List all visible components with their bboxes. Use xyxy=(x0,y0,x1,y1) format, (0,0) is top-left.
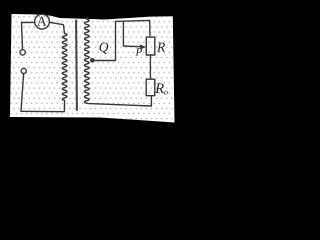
black scan border xyxy=(0,0,197,147)
svg-text:A: A xyxy=(37,14,47,29)
resistor R box xyxy=(146,37,155,55)
terminal upper xyxy=(20,50,25,55)
wire ammeter to primary top corner xyxy=(49,22,64,33)
secondary winding L2 xyxy=(84,17,89,103)
wire slider branch xyxy=(123,21,141,47)
wire node Q to right riser xyxy=(92,21,116,60)
terminal lower xyxy=(21,68,26,73)
svg-text:P: P xyxy=(135,47,143,59)
wire primary bottom xyxy=(21,101,65,112)
wire top-left horizontal to ammeter xyxy=(22,21,35,23)
wire top rail right loop xyxy=(116,20,151,37)
node Q junction dot xyxy=(90,58,95,63)
svg-text:Q: Q xyxy=(99,40,109,55)
wire left vertical lower xyxy=(21,74,24,112)
slider arrowhead P xyxy=(140,44,146,49)
ammeter A xyxy=(35,14,50,29)
paper background xyxy=(10,14,175,123)
primary winding L1 xyxy=(62,33,67,100)
transformer core xyxy=(75,21,78,111)
resistor R0 box xyxy=(146,79,155,96)
svg-text:R: R xyxy=(156,39,166,54)
wire R to R0 xyxy=(149,55,151,79)
wire left vertical upper xyxy=(22,22,23,49)
wire secondary bottom to R0 xyxy=(87,96,152,106)
